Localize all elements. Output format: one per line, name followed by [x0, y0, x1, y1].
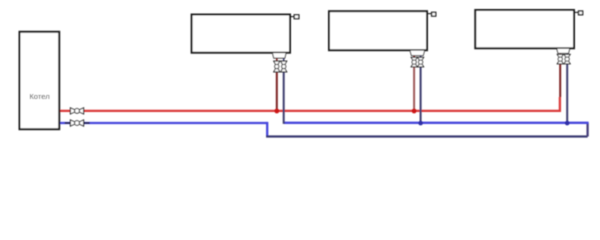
- air vent on RAD3: [574, 11, 583, 15]
- wire: red supply drop radiator 1 (maroon): [276, 72, 278, 111]
- bottom connection housing RAD3: [557, 48, 570, 53]
- valve V1 on red supply at boiler: [70, 108, 83, 115]
- valve pair RAD1 (return): [281, 61, 288, 72]
- red stub RAD2: [413, 56, 415, 58]
- node: red junction at radiator 2 drop: [412, 109, 417, 114]
- wire: navy drop radiator 1: [283, 72, 285, 124]
- wire: red supply main from boiler to right riser: [59, 110, 560, 112]
- node: blue junction at radiator 3 drop: [565, 121, 570, 126]
- navy stub RAD2: [420, 56, 422, 58]
- valve pair RAD3 (return): [564, 54, 571, 63]
- node: blue junction at radiator 2 drop: [418, 121, 423, 126]
- svg-text:Котел: Котел: [29, 92, 49, 101]
- wire: left riser down (bright blue): [266, 122, 268, 137]
- valve pair RAD2 (return): [417, 57, 424, 66]
- boiler (Котел): [20, 32, 60, 129]
- bottom connection housing RAD2: [410, 50, 425, 55]
- wire: blue collector joining radiators (bright blue): [284, 122, 589, 124]
- wire: blue return from boiler (bright blue): [59, 122, 267, 124]
- wire: red supply drop radiator 3 (maroon): [559, 63, 561, 97]
- valve pair RAD2 (supply): [411, 57, 418, 66]
- radiator RAD3: [475, 10, 574, 48]
- valve V2 on blue return at boiler: [65, 120, 90, 127]
- air vent on RAD2: [427, 12, 436, 16]
- bottom connection housing RAD1: [272, 53, 286, 58]
- radiator RAD1: [192, 15, 290, 53]
- navy stub RAD1: [283, 58, 285, 61]
- air vent on RAD1: [290, 15, 299, 19]
- valve pair RAD3 (supply): [557, 54, 564, 63]
- wire: bottom return run (navy): [266, 135, 587, 137]
- wire: right riser (navy): [586, 123, 588, 137]
- red stub RAD3: [559, 53, 561, 54]
- wire: red supply drop radiator 2 (muted red): [413, 67, 415, 111]
- wire: navy drop radiator 2: [420, 67, 422, 123]
- wire: navy drop radiator 3: [566, 63, 568, 122]
- navy stub RAD3: [566, 53, 568, 54]
- red stub RAD1: [276, 58, 278, 61]
- radiator RAD2: [329, 11, 427, 50]
- node: red junction at radiator 1 drop: [274, 109, 279, 114]
- valve pair RAD1 (supply): [274, 61, 281, 72]
- wire: red supply riser to radiator 3 (lower bright part): [559, 97, 561, 112]
